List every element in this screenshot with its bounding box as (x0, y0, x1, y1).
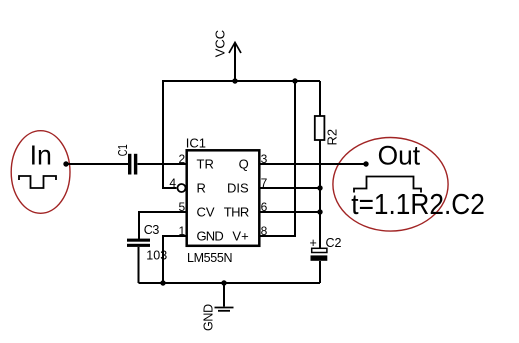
svg-text:LM555N: LM555N (187, 251, 232, 265)
svg-text:TR: TR (197, 157, 214, 172)
svg-text:THR: THR (224, 205, 249, 220)
svg-text:C2: C2 (326, 236, 342, 250)
svg-text:GND: GND (197, 229, 224, 244)
svg-text:4: 4 (169, 176, 176, 190)
svg-text:C1: C1 (116, 144, 130, 156)
svg-text:In: In (30, 140, 52, 171)
svg-text:1: 1 (179, 224, 186, 238)
svg-text:t=1.1R2.C2: t=1.1R2.C2 (351, 189, 485, 221)
svg-text:+: + (310, 236, 317, 250)
svg-text:VCC: VCC (212, 30, 227, 57)
svg-text:IC1: IC1 (186, 136, 206, 151)
svg-text:CV: CV (197, 205, 215, 220)
svg-text:R2: R2 (325, 129, 340, 146)
svg-text:7: 7 (261, 176, 268, 190)
svg-text:GND: GND (202, 304, 216, 331)
svg-text:3: 3 (261, 152, 268, 166)
svg-text:6: 6 (261, 200, 268, 214)
svg-text:Out: Out (378, 140, 421, 170)
svg-text:V+: V+ (232, 229, 248, 244)
svg-text:103: 103 (146, 249, 167, 263)
svg-text:R: R (197, 181, 206, 196)
svg-text:C3: C3 (144, 223, 160, 237)
svg-text:Q: Q (239, 157, 249, 172)
svg-text:5: 5 (179, 200, 186, 214)
svg-text:2: 2 (179, 152, 186, 166)
svg-text:DIS: DIS (227, 181, 249, 196)
svg-text:8: 8 (261, 224, 268, 238)
